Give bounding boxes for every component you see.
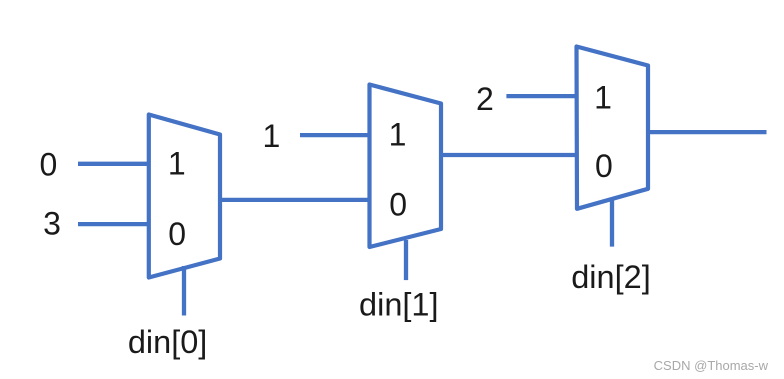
svg-text:CSDN @Thomas-w: CSDN @Thomas-w <box>654 358 769 373</box>
wire M2 output to M3 input 0 <box>440 153 577 157</box>
wire M1 output to M2 input 0 <box>219 198 370 202</box>
wire M3 output <box>647 130 767 134</box>
svg-text:0: 0 <box>168 216 186 252</box>
wire M1 select din[0] <box>182 266 186 316</box>
svg-text:1: 1 <box>389 117 407 153</box>
wire M3 select din[2] <box>610 199 614 247</box>
wire input 1 to M2 <box>300 133 370 137</box>
svg-text:3: 3 <box>43 205 61 241</box>
wire input 2 to M3 <box>506 94 577 98</box>
svg-text:din[0]: din[0] <box>128 324 208 360</box>
svg-text:1: 1 <box>168 146 186 182</box>
svg-text:1: 1 <box>594 80 612 116</box>
svg-text:1: 1 <box>263 118 281 154</box>
svg-text:din[2]: din[2] <box>571 259 651 295</box>
svg-text:0: 0 <box>389 186 407 222</box>
svg-text:0: 0 <box>40 147 58 183</box>
svg-text:2: 2 <box>476 81 494 117</box>
mux M3 <box>577 47 649 209</box>
svg-text:din[1]: din[1] <box>359 287 439 323</box>
mux M2 <box>370 85 442 248</box>
wire M2 select din[1] <box>404 240 408 280</box>
wire input 3 to M1 <box>78 222 149 226</box>
wire input 0 to M1 <box>78 162 149 166</box>
svg-text:0: 0 <box>595 148 613 184</box>
mux M1 <box>149 115 220 278</box>
